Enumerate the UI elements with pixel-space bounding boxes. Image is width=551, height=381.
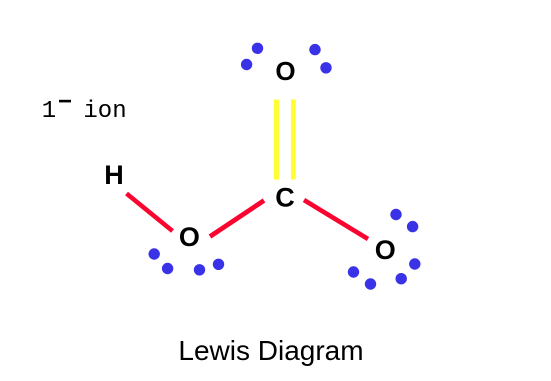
double bond C=O (yellow) left stroke [274, 100, 279, 180]
double bond C=O (yellow) right stroke [291, 100, 296, 180]
svg-text:H: H [104, 160, 124, 190]
lone pair dots on top O (left pair) [252, 43, 263, 54]
bond O-H (red single) [127, 194, 173, 232]
lone pair dots on right O (top pair) [390, 209, 401, 220]
lone pair dots on right O (bottom-left pair) [348, 266, 359, 277]
svg-text:O: O [275, 56, 295, 86]
lone pair dots on left O (left pair) [149, 248, 160, 259]
svg-text:Lewis Diagram: Lewis Diagram [178, 335, 363, 366]
bond C-O (red single, right) [304, 200, 368, 239]
lone pair dots on right O (right pair) [409, 258, 420, 269]
svg-text:C: C [275, 183, 295, 213]
svg-text:O: O [179, 222, 200, 252]
label "1- ion" [42, 98, 127, 125]
svg-text:ion: ion [83, 98, 126, 125]
lone pair dots on left O (right pair) [194, 264, 205, 275]
svg-text:1: 1 [42, 98, 56, 125]
bond O-C (red single, left) [210, 201, 264, 237]
svg-text:O: O [375, 235, 396, 265]
lone pair dots on top O (right pair) [309, 44, 320, 55]
